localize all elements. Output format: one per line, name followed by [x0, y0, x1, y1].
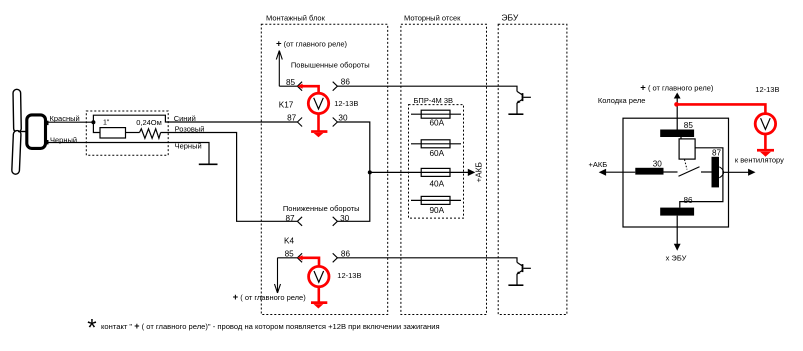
ECU dashed box ЭБУ — [498, 24, 567, 314]
svg-text:х ЭБУ: х ЭБУ — [666, 253, 687, 262]
fuse F 1" body — [100, 128, 126, 138]
svg-text:Пониженные обороты: Пониженные обороты — [283, 204, 360, 213]
pin 87 fork K4 — [297, 217, 302, 226]
socket pin 87 bar — [712, 157, 720, 188]
pin 86 fork K4 — [333, 253, 338, 262]
motor terminal top — [46, 121, 49, 125]
svg-text:+ (от главного реле): + (от главного реле) — [276, 39, 348, 50]
svg-text:30: 30 — [340, 214, 350, 223]
svg-text:Моторный отсек: Моторный отсек — [404, 13, 461, 22]
svg-text:Повышенные обороты: Повышенные обороты — [291, 61, 370, 70]
fan shaft wire — [18, 131, 26, 133]
node red tap (relay socket) — [674, 102, 679, 107]
svg-text:+ ( от главного реле): + ( от главного реле) — [233, 292, 307, 303]
svg-text:86: 86 — [341, 77, 351, 86]
svg-text:к вентилятору: к вентилятору — [735, 155, 784, 164]
voltmeter V2 ground triangle — [314, 304, 324, 308]
fuse box БПР-4М 3В dashed — [409, 105, 464, 219]
ground (Q2 emitter) — [508, 284, 523, 286]
pin 85 fork K17 — [297, 82, 302, 91]
fuse 40A wire from node B to +АКБ — [370, 171, 469, 173]
relay coil (socket) — [679, 139, 695, 159]
voltmeter V2 V glyph — [314, 271, 324, 282]
svg-text:+ ( от главного реле): + ( от главного реле) — [640, 83, 714, 94]
pin 85 fork K4 — [297, 253, 302, 262]
svg-text:+АКБ: +АКБ — [589, 160, 608, 169]
transistor Q2 (lower) — [516, 262, 531, 285]
arrow up to +12V (relay socket) — [674, 93, 681, 99]
svg-text:87: 87 — [286, 214, 296, 223]
wire K4 86 to ECU transistor — [337, 258, 517, 263]
voltmeter V2 ground stem — [317, 287, 320, 302]
switch blade — [679, 167, 700, 176]
pin 30 fork K17 — [333, 118, 338, 127]
voltmeter V2 red lead — [300, 258, 320, 267]
wire black motor to ground — [47, 143, 209, 165]
wire red motor to junction — [47, 121, 93, 123]
svg-text:30: 30 — [338, 114, 348, 123]
voltmeter V1 ground triangle — [314, 133, 324, 137]
pin 86 fork K17 — [333, 82, 338, 91]
arrow left +АКБ — [599, 169, 606, 176]
wire Розовый out — [161, 133, 298, 222]
voltmeter V1 red arrowhead — [297, 84, 302, 89]
svg-text:1": 1" — [103, 120, 110, 127]
ground (Q1 emitter) — [508, 113, 523, 115]
svg-text:Монтажный блок: Монтажный блок — [266, 13, 326, 22]
svg-text:30: 30 — [653, 160, 663, 169]
wire pin 30 to +АКБ — [606, 171, 635, 173]
svg-text:60А: 60А — [430, 149, 445, 158]
fuse 40A body — [421, 168, 450, 176]
fuse 60A #2 — [411, 140, 461, 148]
node junction A (fan resistor tap) — [91, 120, 95, 124]
svg-text:K17: K17 — [279, 101, 294, 110]
voltmeter V1 ground stem — [317, 114, 320, 131]
arrow down от главного реле K4 — [275, 258, 281, 293]
socket pin 30 bar — [635, 168, 663, 175]
fuse 60A #1 — [411, 110, 461, 118]
wire pin 87 to fan — [724, 171, 749, 173]
voltmeter V1 V glyph — [314, 98, 324, 109]
voltmeter V3 ground triangle — [760, 152, 771, 157]
wire junction down to fuse path — [93, 122, 100, 132]
node B junction — [368, 170, 372, 174]
arrow up от главного реле K17 — [276, 51, 282, 87]
transistor Q1 (upper) — [516, 91, 531, 114]
fan M1 blade top — [13, 89, 21, 132]
fuse 90A — [411, 196, 461, 204]
svg-text:85: 85 — [684, 121, 694, 130]
svg-text:40А: 40А — [430, 179, 445, 188]
svg-text:+АКБ: +АКБ — [475, 162, 484, 182]
arrow right к вентилятору — [748, 169, 755, 176]
wire K17 86 to ECU transistor — [337, 86, 517, 91]
pin 30 fork K4 — [333, 217, 338, 226]
wire bypass to Синий — [93, 115, 297, 122]
svg-text:Колодка реле: Колодка реле — [598, 96, 646, 105]
svg-text:12-13В: 12-13В — [337, 271, 361, 280]
wire bar85 to coil — [680, 137, 682, 139]
switch contact wire 30 — [664, 171, 678, 173]
svg-text:БПР-4М 3В: БПР-4М 3В — [414, 96, 454, 105]
svg-text:K4: K4 — [284, 236, 294, 245]
relay socket box Колодка реле — [623, 118, 729, 227]
svg-text:87: 87 — [287, 114, 297, 123]
pin 87 bracket — [719, 167, 723, 178]
svg-text:12-13В: 12-13В — [334, 99, 358, 108]
svg-text:Розовый: Розовый — [175, 124, 205, 133]
voltmeter V1 circle — [308, 93, 328, 113]
voltmeter V3 red lead — [677, 104, 766, 113]
resistor R 0.24Ом zigzag — [140, 129, 161, 139]
resistor module dashed box — [86, 111, 168, 155]
svg-text:85: 85 — [286, 78, 296, 87]
pin 87 fork K17 — [297, 118, 302, 127]
arrow down к ЭБУ — [674, 244, 681, 251]
voltmeter V3 V glyph — [761, 118, 771, 129]
mounting block dashed box Монтажный блок — [261, 24, 387, 314]
voltmeter V2 ground bar — [311, 301, 327, 304]
svg-text:60А: 60А — [430, 118, 445, 127]
wire K17 30 down to node B — [337, 122, 369, 221]
voltmeter V3 ground bar — [757, 149, 774, 152]
coil armature dashed link — [685, 160, 688, 170]
wire fuse to resistor — [126, 132, 140, 134]
relay K4 pin 85 wire — [278, 257, 298, 259]
motor terminal bottom — [46, 140, 49, 144]
fan M1 blade bottom — [12, 130, 21, 174]
svg-text:Синий: Синий — [174, 114, 196, 123]
wire top pin 85 feed — [676, 97, 678, 130]
svg-text:Красный: Красный — [50, 114, 80, 123]
svg-text:*: * — [87, 315, 96, 342]
voltmeter V3 ground stem — [764, 134, 767, 150]
voltmeter V1 ground bar — [311, 130, 327, 133]
voltmeter V1 red lead — [300, 86, 319, 93]
engine bay dashed box Моторный отсек — [401, 24, 487, 314]
wire coil to pin 86 — [680, 148, 723, 208]
switch contact wire 87 — [701, 171, 712, 173]
svg-text:86: 86 — [684, 196, 694, 205]
arrow +АКБ right — [468, 169, 476, 176]
svg-text:контакт " + ( от главного реле: контакт " + ( от главного реле)" - прово… — [101, 321, 440, 331]
svg-text:ЭБУ: ЭБУ — [501, 12, 518, 22]
voltmeter V2 red arrowhead — [297, 255, 302, 260]
voltmeter V2 circle — [309, 266, 329, 286]
socket pin 86 bar — [660, 208, 694, 216]
relay K17 pin 85 wire — [279, 85, 297, 87]
svg-text:90А: 90А — [430, 206, 445, 215]
svg-text:0,24Ом: 0,24Ом — [136, 118, 162, 127]
wire pin 86 to ECU — [676, 216, 678, 245]
voltmeter V3 circle — [755, 114, 775, 134]
ground (fan black wire) — [199, 163, 218, 165]
motor M1 body — [27, 115, 46, 148]
svg-text:12-13В: 12-13В — [755, 85, 779, 94]
socket pin 85 bar — [660, 130, 694, 138]
svg-text:87: 87 — [712, 149, 722, 158]
